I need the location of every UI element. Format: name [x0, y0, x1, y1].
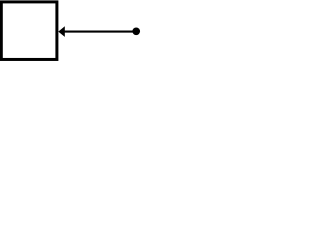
block box — [1, 2, 57, 60]
wire — [63, 31, 136, 33]
node dot — [132, 27, 140, 35]
arrowhead — [58, 26, 65, 37]
